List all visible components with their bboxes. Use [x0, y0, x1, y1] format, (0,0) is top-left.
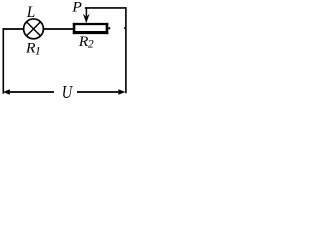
- svg-text:P: P: [71, 0, 82, 16]
- svg-text:2: 2: [88, 37, 94, 51]
- svg-text:L: L: [26, 4, 36, 21]
- svg-text:1: 1: [35, 43, 41, 57]
- svg-text:U: U: [62, 82, 74, 98]
